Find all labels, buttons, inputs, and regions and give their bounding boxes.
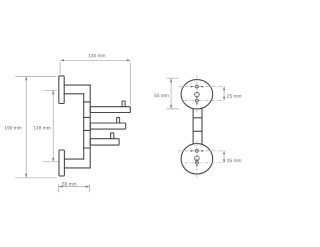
dimension arrowheads (25, 59, 225, 188)
screw holes top circle (195, 85, 200, 164)
wall plate bottom (59, 150, 64, 176)
arrows 135mm (60, 59, 64, 61)
peg of arm 3 (111, 133, 114, 139)
wall plate top (59, 76, 64, 104)
hole pointer arrows bottom circle upper hole (191, 150, 194, 152)
dim 65mm extension lines (59, 184, 90, 193)
bottom rosette circle (181, 144, 213, 174)
peg of arm 2 (117, 117, 120, 123)
label 65 mm (62, 182, 76, 185)
center lines (dash-dot) (178, 75, 224, 177)
upper screw hole (bottom circle) (196, 150, 199, 153)
hole pointer arrows bottom circle lower hole (196, 159, 198, 161)
center hole (top circle) (195, 92, 200, 97)
dim 65mm line (59, 186, 90, 188)
arrows 25mm bottom (223, 151, 225, 154)
vertical centerline top circle (196, 75, 198, 113)
bottom connector arm (64, 159, 90, 168)
bar division lines (193, 118, 202, 132)
top connector arm (64, 85, 90, 94)
label 25 mm (227, 94, 241, 97)
horizontal centerline bottom upper hole (178, 150, 224, 152)
dim 148mm line (52, 90, 54, 162)
arm 3 (bottom hook arm) (90, 139, 119, 145)
arrows 25mm top (223, 87, 225, 91)
arrows 55mm (170, 78, 172, 82)
arm 2 (middle hook arm) (90, 123, 126, 129)
label 190 mm (5, 126, 22, 129)
post division lines (84, 102, 91, 148)
horizontal centerline bottom lower hole (184, 162, 224, 164)
dim 190mm line (25, 76, 27, 177)
dim 148mm extension lines (43, 90, 59, 162)
dim 55mm extension lines (166, 78, 179, 109)
label 25 mm (227, 159, 241, 162)
dim 25mm top line (223, 87, 225, 101)
label 135 mm (89, 54, 106, 57)
dimension labels (5, 54, 241, 186)
dim 135mm line (60, 59, 131, 61)
dim 190mm extension lines (15, 76, 56, 177)
center hole (bottom circle) (195, 156, 200, 161)
label 148 mm (34, 126, 51, 129)
hole pointer arrows top circle lower hole (196, 97, 198, 99)
dim 55mm line (170, 78, 172, 109)
peg of arm 1 (122, 101, 125, 107)
arm 1 (top hook arm) (90, 107, 130, 113)
lower screw hole (bottom circle) (196, 161, 199, 164)
arrows 148mm (52, 90, 54, 94)
horizontal centerline top lower hole (184, 99, 224, 101)
lower screw hole (top circle) (196, 99, 199, 102)
connecting bar (193, 109, 202, 144)
top rosette circle (181, 80, 213, 109)
dim 135mm extension lines (60, 62, 131, 105)
upper screw hole (top circle) (196, 85, 199, 88)
label 55 mm (154, 94, 168, 97)
horizontal centerline top upper hole (178, 86, 224, 88)
post (vertical pivot bar) (84, 85, 91, 168)
hole pointer arrows top circle upper hole (191, 86, 194, 88)
dim 25mm bottom line (223, 151, 225, 163)
arrows 190mm (25, 76, 27, 80)
arrows 65mm (59, 186, 63, 188)
vertical centerline bottom circle (196, 140, 198, 177)
